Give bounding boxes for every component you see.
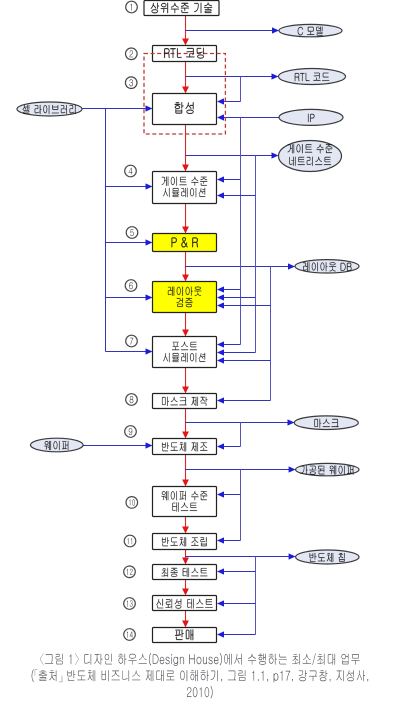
node: step number 12 xyxy=(124,566,136,578)
wire: layout DB output line xyxy=(186,266,290,268)
node: step number 11 xyxy=(124,535,136,547)
node: step number 4 xyxy=(125,165,137,177)
node: step number 10 xyxy=(126,497,138,509)
wire: IP feedback vertical xyxy=(240,118,242,345)
wire: red flow arrow 12 xyxy=(185,580,187,590)
node: step number 7 xyxy=(126,335,138,347)
step 3 box: synthesis label xyxy=(175,102,194,114)
wire: IP input into synthesis xyxy=(223,117,279,119)
ellipse: gate-level netlist xyxy=(279,141,342,172)
step 5 box: P & R xyxy=(153,234,217,252)
step 3 box: synthesis xyxy=(153,94,217,125)
ellipse: IP xyxy=(279,109,343,125)
wire: cell library input into synthesis xyxy=(82,108,147,110)
wire: red flow arrow 7 xyxy=(185,368,187,388)
step 13 box: reliability test xyxy=(153,596,217,611)
wire: red flow arrow 5 xyxy=(185,252,187,276)
step 2 box: RTL coding xyxy=(153,46,217,62)
wire: red flow arrow 11 xyxy=(185,550,187,559)
node: step number 1 xyxy=(126,1,138,13)
ellipse: RTL code xyxy=(279,69,346,85)
wire: chip output line xyxy=(186,556,290,558)
node: step number 5 xyxy=(126,227,138,239)
node: step number 14 xyxy=(124,629,136,641)
wire: processed wafer feedback vertical xyxy=(240,470,242,541)
step 12 box: final test xyxy=(153,565,217,580)
step 4 box: gate-level simulation xyxy=(153,172,217,204)
wire: wafer input into fabrication xyxy=(83,445,146,447)
step 6 box: layout verification xyxy=(153,282,217,313)
node: step number 9 xyxy=(125,426,137,438)
caption line 2 xyxy=(32,669,369,682)
wire: netlist feedback vertical xyxy=(255,156,257,353)
node: step number 6 xyxy=(125,280,137,292)
node: step number 2 xyxy=(126,48,138,60)
wire: RTL code output line xyxy=(186,76,273,78)
caption line 3 xyxy=(187,686,213,698)
step 10 box: wafer-level test xyxy=(153,487,217,517)
ellipse: layout DB xyxy=(295,260,359,273)
wire: netlist output line xyxy=(186,155,273,157)
node: step number 13 xyxy=(124,598,136,610)
wire: red flow arrow 4 xyxy=(185,204,187,228)
step 1 box: high-level description xyxy=(144,1,219,16)
wire: processed wafer output line xyxy=(186,469,290,471)
ellipse: cell library xyxy=(17,102,82,116)
wire: red flow arrow 1 xyxy=(185,16,187,40)
step 14 box: sales xyxy=(153,628,217,643)
wire: RTL code feedback into synthesis xyxy=(240,77,242,102)
wire: red flow arrow 8 xyxy=(185,409,187,433)
wire: layout DB feedback vertical xyxy=(270,267,272,401)
ellipse: C model xyxy=(279,24,342,36)
wire: red flow arrow 2 xyxy=(185,62,187,88)
step 7 box: post simulation xyxy=(153,337,217,368)
wire: red flow arrow 6 xyxy=(185,313,187,331)
step 8 box: mask making xyxy=(153,394,217,409)
node: step number 8 xyxy=(126,394,138,406)
node: step number 3 xyxy=(125,77,137,89)
ellipse: mask xyxy=(294,416,358,430)
wire: red flow arrow 3 xyxy=(185,125,187,166)
wire: mask feedback into fabrication xyxy=(240,423,242,447)
step 9 box: semiconductor fabrication xyxy=(153,439,217,455)
red dashed group frame around RTL coding and synthesis xyxy=(144,54,225,135)
wire: cell library vertical xyxy=(105,109,107,352)
wire: red flow arrow 10 xyxy=(185,517,187,528)
wire: red flow arrow 13 xyxy=(185,611,187,622)
ellipse: processed wafer xyxy=(296,463,359,475)
step 2 box: RTL coding label xyxy=(164,48,204,59)
ellipse: wafer xyxy=(31,438,84,452)
wire: C model output line xyxy=(186,30,274,32)
ellipse: semiconductor chip xyxy=(296,550,359,564)
wire: mask output line xyxy=(186,422,289,424)
caption line 1 xyxy=(40,653,360,666)
wire: red flow arrow 9 xyxy=(185,455,187,481)
wire: chip feedback vertical xyxy=(255,557,257,635)
step 11 box: semiconductor assembly xyxy=(153,534,217,550)
